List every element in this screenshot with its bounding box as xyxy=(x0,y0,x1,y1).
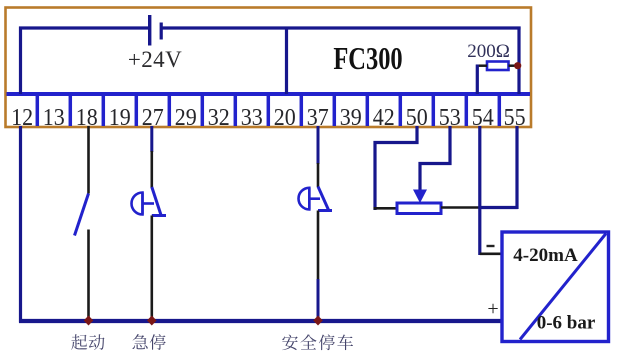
switch S1 (start) blade xyxy=(75,194,89,236)
svg-text:33: 33 xyxy=(241,104,263,131)
label qidong (start) xyxy=(71,334,87,350)
wire: P1 right end link xyxy=(441,206,481,209)
pushbutton S2 actuator stem xyxy=(143,202,155,205)
wire: S3 lower contact to bottom rail xyxy=(317,211,320,281)
svg-text:4-20mA: 4-20mA xyxy=(513,245,578,266)
svg-text:32: 32 xyxy=(208,104,230,131)
wire: terminal 54 down to transducer minus xyxy=(478,126,481,255)
svg-text:20: 20 xyxy=(274,104,296,131)
pushbutton S3 lower contact bar xyxy=(318,209,332,212)
potentiometer P1 body xyxy=(397,203,441,214)
wire: bus drop to terminal 20 xyxy=(285,27,288,95)
pushbutton S3 (safe stop) mushroom head xyxy=(299,188,310,210)
FC300 drive enclosure frame xyxy=(6,8,532,128)
svg-text:13: 13 xyxy=(43,104,65,131)
label minus terminal xyxy=(487,245,495,247)
junction node S2 / bottom rail xyxy=(147,316,157,326)
svg-text:54: 54 xyxy=(472,104,494,131)
pushbutton S2 lower contact bar xyxy=(152,214,166,217)
svg-text:55: 55 xyxy=(504,104,526,131)
pressure transducer U1 box xyxy=(502,232,609,342)
wire: common bottom rail xyxy=(19,319,503,323)
pushbutton S3 blade xyxy=(318,187,329,212)
label anquantingche (safe stop) xyxy=(282,334,298,350)
svg-text:+24V: +24V xyxy=(128,47,182,72)
wire: R1 left drop to terminal 54 xyxy=(476,65,479,95)
battery B1 +24V plates xyxy=(148,15,151,46)
wire: battery bus top right segment xyxy=(163,26,521,29)
junction node S1 / bottom rail xyxy=(84,316,94,326)
pushbutton S2 (e-stop) mushroom head xyxy=(132,193,143,215)
label jiting (e-stop) xyxy=(133,334,148,349)
svg-text:39: 39 xyxy=(340,104,362,131)
svg-text:200Ω: 200Ω xyxy=(467,41,510,62)
terminal strip top rail xyxy=(7,92,531,96)
wire: terminal 55 down to P1 link xyxy=(515,126,518,209)
wire: terminal 53 to P1 wiper xyxy=(420,126,450,190)
wire: terminal 12 down to common bottom rail xyxy=(19,126,22,323)
wire: battery bus left drop to terminal 12 xyxy=(19,27,22,95)
wire: bus drop to terminal 55 / resistor node xyxy=(517,27,520,95)
svg-text:0-6 bar: 0-6 bar xyxy=(537,313,596,334)
wire: R1 right lead xyxy=(509,64,518,67)
junction node at R1 right / bus xyxy=(514,62,521,69)
terminal strip dividers xyxy=(37,94,499,126)
svg-text:18: 18 xyxy=(76,104,98,131)
resistor R1 200&#937; body xyxy=(487,62,509,71)
pushbutton S2 blade xyxy=(152,187,162,217)
wire: S2 lower contact to bottom rail xyxy=(151,216,154,322)
wire: battery bus top left segment xyxy=(19,26,149,29)
svg-text:FC300: FC300 xyxy=(333,42,402,76)
wire: terminal 27 to pushbutton S2 upper contact xyxy=(150,126,153,152)
svg-text:19: 19 xyxy=(109,104,131,131)
terminal numbers 12..55 xyxy=(11,104,525,131)
svg-text:+: + xyxy=(487,298,498,320)
wire: terminal 18 to switch S1 upper contact xyxy=(87,126,90,194)
svg-text:42: 42 xyxy=(373,104,395,131)
P1 wiper arrow xyxy=(413,190,427,204)
wire: terminal 37 to pushbutton S3 upper contact xyxy=(317,126,320,164)
wire: terminal 50 to potentiometer left end xyxy=(375,126,417,210)
svg-text:29: 29 xyxy=(175,104,197,131)
pushbutton S3 actuator stem xyxy=(309,197,320,200)
wire: R1 left lead xyxy=(476,64,487,67)
wire: S1 lower contact to bottom rail xyxy=(87,230,90,322)
junction node S3 / bottom rail xyxy=(313,316,323,326)
U1 diagonal xyxy=(520,234,606,340)
